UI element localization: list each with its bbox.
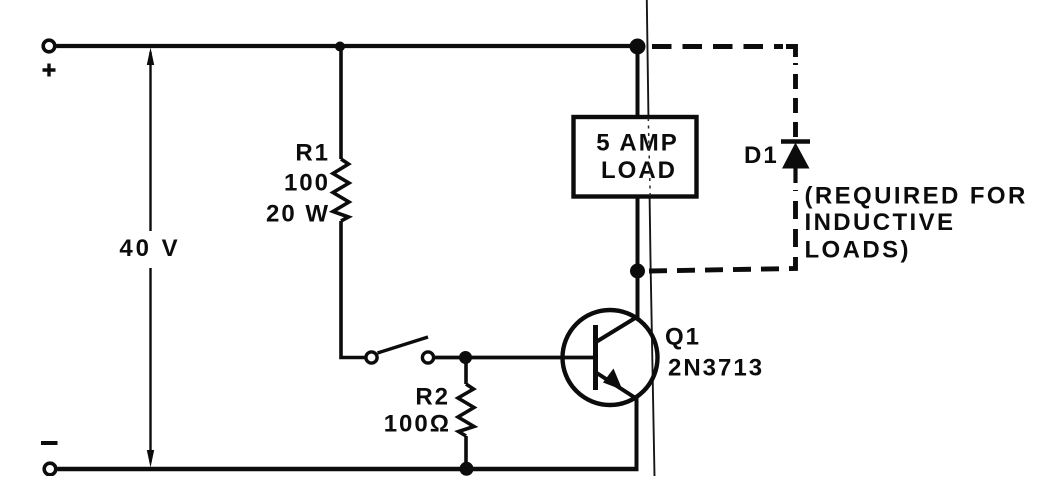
svg-text:40 V: 40 V [119, 235, 180, 262]
wire R2 upper lead [464, 358, 468, 385]
wire dashed freewheel right lower [649, 190, 796, 271]
node collector junction [630, 264, 645, 279]
scan artifact dotted through load box [648, 118, 650, 196]
wire emitter lead [635, 398, 639, 469]
resistor R1 [333, 159, 349, 221]
transistor Q1 base bar [593, 325, 598, 390]
switch S1 lever [378, 337, 429, 353]
wire dashed freewheel corner [786, 47, 796, 58]
wire switch to base [435, 356, 597, 360]
node R1 top junction [335, 42, 345, 52]
transistor Q1 body [563, 310, 658, 405]
svg-text:LOADS): LOADS) [805, 237, 911, 264]
diode D1 lower stub [793, 168, 797, 183]
svg-text:20 W: 20 W [266, 201, 330, 228]
svg-text:100Ω: 100Ω [384, 411, 451, 438]
node R2 top junction [459, 351, 472, 364]
resistor R2 [458, 384, 474, 436]
wire dashed freewheel top [652, 44, 783, 49]
transistor Q1 emitter stroke [596, 373, 637, 400]
wire dashed freewheel right upper [793, 63, 798, 137]
terminal negative [44, 463, 56, 475]
svg-text:Q1: Q1 [665, 324, 701, 351]
wire R1 lower lead [341, 221, 365, 358]
terminal positive [43, 40, 55, 52]
svg-text:D1: D1 [744, 142, 779, 169]
wire top bus [57, 44, 637, 48]
transistor Q1 collector stroke [596, 316, 639, 342]
transistor Q1 emitter arrowhead [603, 369, 623, 391]
node R2 bottom junction [460, 462, 474, 476]
scan artifact vertical line [647, 0, 655, 476]
diode D1 anode triangle [782, 143, 810, 169]
diode D1 cathode bar [781, 139, 810, 144]
wire load lower lead [636, 199, 640, 319]
wire bottom bus [58, 467, 639, 471]
svg-text:5 AMP: 5 AMP [596, 130, 678, 157]
svg-text:R1: R1 [295, 140, 330, 167]
switch S1 throw contact [422, 352, 433, 363]
wire load upper lead [636, 46, 640, 115]
svg-text:LOAD: LOAD [601, 157, 677, 184]
svg-text:(REQUIRED FOR: (REQUIRED FOR [805, 183, 1028, 210]
plus label [43, 64, 56, 77]
svg-text:2N3713: 2N3713 [668, 355, 764, 382]
dimension arrow down [147, 450, 154, 468]
node top bus junction [630, 39, 646, 55]
dimension arrow up [147, 48, 154, 66]
wire R1 upper lead [339, 46, 343, 159]
load box 5 AMP LOAD [574, 117, 697, 197]
svg-text:100: 100 [284, 170, 330, 197]
svg-text:INDUCTIVE: INDUCTIVE [805, 209, 956, 236]
minus label [41, 441, 58, 445]
wire R2 lower lead [464, 436, 468, 469]
svg-text:R2: R2 [415, 384, 450, 411]
voltage dimension line 40 V [149, 52, 151, 462]
switch S1 pole contact [366, 352, 377, 363]
